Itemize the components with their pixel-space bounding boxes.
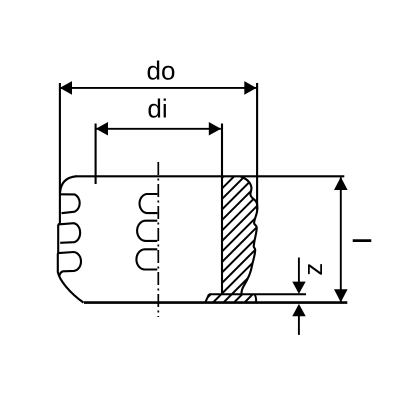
- hatching of cross-section: [90, 170, 388, 310]
- centerline (dash-dot): [157, 162, 159, 317]
- extension line do left (merges into part left edge): [59, 83, 61, 223]
- baseline (part bottom, extends right as extension line): [84, 301, 347, 304]
- arrowhead l bottom: [334, 289, 348, 302]
- svg-text:l: l: [349, 238, 377, 244]
- part left edge lower section with jogs and bottom curve: [58, 223, 84, 302]
- arrowhead di left: [96, 122, 108, 136]
- extension line di right (continues as section left edge): [221, 124, 223, 295]
- extension line do right: [256, 83, 258, 210]
- z upper arrowhead (down): [292, 282, 305, 294]
- svg-text:di: di: [147, 94, 167, 124]
- foot flange left chamfer: [205, 294, 209, 302]
- part top edge (extends right as extension line for l): [75, 175, 344, 177]
- rib middle 1: [140, 194, 158, 213]
- z upper arrow stem: [298, 258, 300, 285]
- arrowhead di right: [209, 122, 221, 136]
- dimension line di: [96, 128, 221, 130]
- z lower arrowhead (up): [292, 304, 305, 316]
- foot flange top edge (extends right as extension line for z): [209, 293, 306, 295]
- rib middle 3: [136, 249, 157, 269]
- svg-text:z: z: [300, 263, 328, 276]
- z lower arrow stem: [298, 316, 300, 335]
- arrowhead do left: [60, 81, 72, 95]
- rib lobe left 1: [61, 194, 80, 213]
- svg-text:do: do: [147, 56, 176, 86]
- rib lobe left 2: [58, 223, 80, 243]
- rib lobe left 3: [59, 252, 81, 276]
- dimension line l: [340, 178, 342, 302]
- rib middle 2: [137, 221, 157, 241]
- dimension line do: [60, 87, 256, 89]
- arrowhead do right: [244, 81, 256, 95]
- arrowhead l top: [334, 177, 348, 190]
- extension line di left: [95, 124, 97, 185]
- foot flange right edge: [255, 294, 257, 302]
- section right profile (thread-like outline): [241, 177, 258, 295]
- part top-left corner radius: [60, 176, 77, 193]
